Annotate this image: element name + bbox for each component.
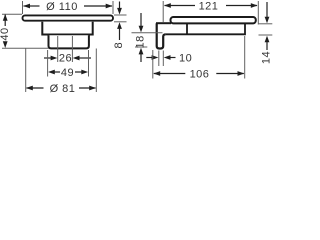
svg-text:14: 14 xyxy=(261,51,273,64)
svg-text:106: 106 xyxy=(190,68,210,80)
extension line 8 top (left view) xyxy=(114,14,127,16)
svg-text:26: 26 xyxy=(59,53,72,65)
svg-text:Ø 81: Ø 81 xyxy=(50,83,76,95)
svg-text:Ø 110: Ø 110 xyxy=(46,1,78,13)
svg-text:121: 121 xyxy=(199,1,219,13)
dimension Ø81 right arrow xyxy=(79,86,96,91)
svg-text:8: 8 xyxy=(113,42,125,49)
dimension 14 lower arrow xyxy=(265,36,270,50)
dimension 26 left arrow xyxy=(44,56,57,61)
right view: extension line 121 left xyxy=(162,1,164,22)
dimension 121 right arrow xyxy=(226,3,258,8)
dimension 49 left arrow xyxy=(48,70,60,75)
right view: underside edge xyxy=(166,24,245,34)
extension line 106 right xyxy=(244,36,246,79)
dimension 18 lower arrow xyxy=(139,48,144,62)
dimension 40 upper arrow xyxy=(3,14,8,26)
right view: bracket top edge xyxy=(156,22,171,24)
left view: top plate xyxy=(23,15,114,20)
extension line 10 right xyxy=(162,51,164,67)
extension line 40 bottom xyxy=(2,47,49,49)
right view: extension line 121 right xyxy=(257,1,259,25)
extension line 49 left xyxy=(47,50,49,77)
dimension 121 left arrow xyxy=(164,3,195,8)
extension line Ø81 right xyxy=(95,49,97,93)
extension line 40 top xyxy=(2,13,22,15)
dimension 18 upper arrow xyxy=(139,13,144,32)
left view: drain slot line left / ext 26 left xyxy=(57,36,59,62)
extension line 106 left xyxy=(152,50,154,79)
dimension Ø110 right arrow xyxy=(84,4,113,9)
svg-text:49: 49 xyxy=(61,67,74,79)
dimension 8 lower arrow (left view) xyxy=(117,22,122,40)
left view: flange body xyxy=(42,22,92,35)
left view: drain slot line right / ext 26 right xyxy=(71,36,73,62)
extension line 49 right xyxy=(88,50,90,77)
dimension 49 right arrow xyxy=(75,70,88,75)
svg-text:10: 10 xyxy=(179,53,192,65)
left view: lower base box xyxy=(49,35,89,48)
extension tick 14 upper (right view) xyxy=(259,23,273,25)
extension line Ø81 left xyxy=(25,49,27,93)
dimension 106 left arrow xyxy=(153,71,185,76)
left view: extension line Ø110 right xyxy=(112,1,114,14)
dimension 106 right arrow xyxy=(216,71,244,76)
dimension Ø110 left arrow xyxy=(23,4,39,9)
dimension 26 right arrow xyxy=(73,56,91,61)
extension tick 14 lower (right view) xyxy=(259,34,273,36)
extension line 8 bottom (left view) xyxy=(114,21,127,23)
dimension Ø81 left arrow xyxy=(26,86,44,91)
dimension 10 left arrow xyxy=(146,55,158,60)
dimension 8 upper arrow (left view) xyxy=(117,2,122,15)
svg-text:40: 40 xyxy=(0,27,11,40)
dimension 40 lower arrow xyxy=(3,41,8,48)
extension line 18 top xyxy=(132,32,163,34)
dimension 10 right arrow xyxy=(164,55,176,60)
left view: extension line Ø110 left xyxy=(22,1,24,14)
right view: back panel and foot xyxy=(157,23,166,48)
svg-text:18: 18 xyxy=(135,35,147,48)
right view: divider wall xyxy=(186,24,188,34)
right view: shelf plate xyxy=(171,17,256,23)
extension line 10 left xyxy=(158,51,160,67)
dimension 14 upper arrow xyxy=(265,2,270,23)
extension line 18 bottom xyxy=(135,46,147,48)
